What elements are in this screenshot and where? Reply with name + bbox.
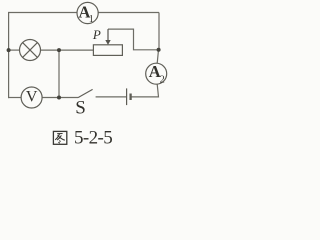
node left junction xyxy=(7,48,11,52)
svg-text:1: 1 xyxy=(89,14,94,25)
wire top-right segment xyxy=(98,12,159,14)
wire right rail xyxy=(158,13,160,50)
wire mid vertical xyxy=(58,50,60,97)
wire top-left segment xyxy=(9,12,77,14)
svg-text:P: P xyxy=(92,27,101,42)
rheostat wiper arrow xyxy=(105,29,110,45)
rheostat P body xyxy=(93,45,122,56)
wire bottom-left segment xyxy=(9,97,22,99)
svg-text:2: 2 xyxy=(160,75,165,86)
node bottom junction xyxy=(57,96,61,100)
ammeter A1 xyxy=(77,2,98,25)
wire lamp row left xyxy=(9,49,20,51)
ammeter A2 xyxy=(146,62,167,86)
node lamp-row junction xyxy=(57,48,61,52)
switch S blade xyxy=(78,89,93,97)
wire left rail xyxy=(8,12,10,98)
node right-rail junction xyxy=(157,48,161,52)
lamp L (circle with X) xyxy=(20,40,41,61)
caption glyph 图 xyxy=(53,131,66,144)
voltmeter V xyxy=(21,87,42,108)
wire lamp row right xyxy=(41,49,94,51)
svg-text:5-2-5: 5-2-5 xyxy=(74,127,112,148)
wire V to switch pivot xyxy=(42,97,78,99)
wire dot to A2 top xyxy=(157,50,158,64)
wire battery to switch xyxy=(96,96,127,98)
svg-text:S: S xyxy=(75,98,86,119)
wire wiper link xyxy=(108,29,159,50)
wire A2 bottom to corner xyxy=(131,84,159,97)
svg-text:V: V xyxy=(26,88,38,105)
battery cell xyxy=(127,88,131,105)
